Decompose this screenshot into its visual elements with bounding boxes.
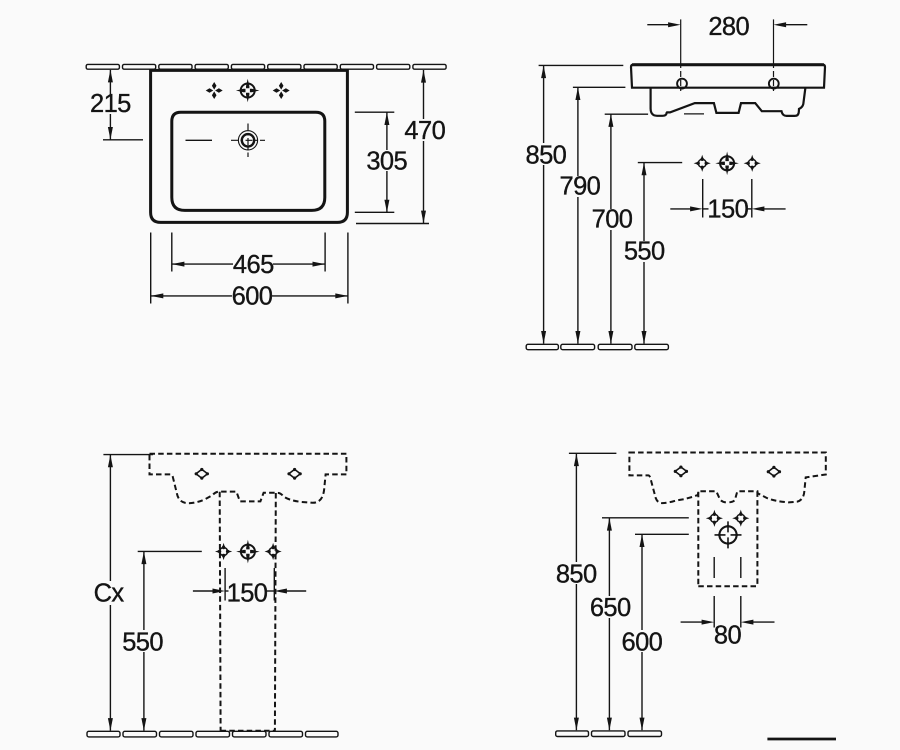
svg-text:280: 280 — [708, 13, 749, 41]
svg-text:150: 150 — [227, 580, 268, 608]
faucet hole center marker (side view) — [715, 152, 739, 176]
mounting box left edge (dashed) — [697, 492, 699, 586]
bolt diamond right (side) — [767, 466, 781, 478]
bolt hole right — [769, 79, 779, 89]
drain outlet — [231, 124, 265, 158]
dimension 305 — [355, 112, 408, 212]
svg-text:790: 790 — [560, 173, 601, 201]
dimension 850 (bottom right) — [556, 453, 617, 730]
svg-text:Cx: Cx — [94, 580, 125, 608]
pedestal bottom edge (dashed) — [221, 730, 275, 732]
dimension 600 (bottom right) — [622, 534, 689, 730]
dimension 790 — [560, 87, 626, 343]
hidden edge line — [684, 113, 704, 115]
dimension 650 — [590, 518, 689, 730]
pedestal left edge (dashed) — [219, 492, 222, 731]
bolt hole centerline left — [680, 19, 682, 91]
reference scale bar — [767, 738, 836, 741]
bolt diamond left (side) — [674, 466, 688, 478]
faucet hole center marker — [236, 79, 260, 103]
svg-text:215: 215 — [90, 90, 131, 118]
svg-text:305: 305 — [366, 148, 407, 176]
mounting box bottom edge (dashed) — [698, 585, 757, 587]
dimension 150 (side view) — [670, 179, 785, 224]
basin outer outline (top view) — [151, 70, 348, 222]
dimension 470 — [356, 70, 446, 224]
dimension 215 — [90, 70, 143, 140]
svg-text:550: 550 — [122, 629, 163, 657]
faucet hole cross right (side view) — [744, 155, 761, 172]
floor hatch (side view) — [526, 344, 668, 349]
bolt diamond left — [195, 468, 209, 480]
svg-text:850: 850 — [526, 141, 567, 169]
faucet hole cross right — [273, 82, 290, 99]
drain hole marker — [715, 521, 742, 548]
basin dashed outline (side) — [629, 453, 825, 504]
faucet hole cross left (front view) — [215, 543, 232, 560]
bolt hole centerline right — [773, 19, 775, 91]
basin inner bowl outline — [172, 112, 325, 210]
wall hatch (top view) — [86, 64, 446, 69]
svg-text:650: 650 — [590, 594, 631, 622]
floor hatch (front view) — [87, 731, 338, 737]
faucet hole cross right (front view) — [265, 543, 282, 560]
svg-text:600: 600 — [622, 629, 663, 657]
dimension 80 — [681, 557, 775, 650]
fixing hole cross right — [732, 510, 749, 527]
dimension 700 — [592, 114, 648, 343]
fixing hole cross left — [706, 510, 723, 527]
bolt diamond right — [287, 468, 301, 480]
dimension 600 — [151, 233, 348, 311]
dimension 550 (side view) — [624, 163, 682, 344]
pedestal right edge (dashed) — [274, 493, 277, 731]
faucet hole center marker (front view) — [236, 540, 260, 564]
floor hatch (bottom right) — [556, 731, 662, 737]
dimension 465 — [172, 233, 325, 279]
dimension 150 (front view) — [193, 568, 306, 608]
faucet hole cross left — [206, 82, 223, 99]
svg-text:550: 550 — [624, 238, 665, 266]
svg-text:600: 600 — [232, 283, 273, 311]
bolt hole left — [677, 79, 687, 89]
basin top slab (side view) — [631, 65, 825, 88]
centerline dash left of drain — [186, 139, 213, 141]
svg-text:80: 80 — [714, 622, 742, 650]
dimension 550 (front view) — [122, 551, 202, 730]
dimension Cx — [94, 455, 153, 731]
svg-text:150: 150 — [707, 196, 748, 224]
svg-text:850: 850 — [556, 560, 597, 588]
dimension 850 — [526, 65, 624, 343]
faucet hole cross left (side view) — [694, 155, 711, 172]
svg-text:465: 465 — [233, 251, 274, 279]
mounting box right edge (dashed) — [756, 491, 758, 586]
svg-text:700: 700 — [592, 206, 633, 234]
dimension 280 — [647, 13, 807, 41]
basin dashed outline (front) — [150, 454, 347, 503]
svg-text:470: 470 — [404, 117, 445, 145]
basin underside profile — [651, 88, 806, 116]
